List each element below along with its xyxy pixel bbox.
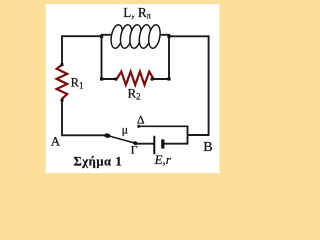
wire tie vertical (joins Delta wire, B wire, battery wire) <box>187 126 189 145</box>
node parallel top-left <box>100 35 103 38</box>
node R2 right <box>151 78 154 81</box>
node R2 left <box>114 78 117 81</box>
battery negative long plate <box>153 136 155 154</box>
switch blade tip arrowhead at Gamma <box>132 141 138 146</box>
parallel block left rail wire <box>101 36 103 79</box>
wire B horizontal (battery junction to B corner) <box>188 134 210 136</box>
wire left vertical lower (R1 to A corner) <box>61 100 63 136</box>
node parallel top-right <box>167 35 170 38</box>
svg-text:μ: μ <box>122 122 128 136</box>
node parallel bottom-right <box>167 77 170 80</box>
wire R2 left stub <box>101 78 118 80</box>
svg-text:Γ: Γ <box>131 143 138 157</box>
resistor R1 (red zigzag) <box>57 65 68 99</box>
wire Gamma contact to battery <box>137 143 154 145</box>
switch blade <box>109 136 135 143</box>
resistor R2 (red zigzag) <box>117 72 153 85</box>
svg-text:B: B <box>203 140 212 155</box>
wire top-left horizontal <box>61 35 101 37</box>
parallel block right rail wire <box>168 36 170 79</box>
node R1 bottom <box>61 99 64 102</box>
wire right vertical <box>208 35 210 135</box>
node parallel bottom-left <box>100 77 103 80</box>
svg-text:A: A <box>51 133 61 148</box>
node Delta contact <box>137 125 140 128</box>
wire R2 right stub <box>153 78 170 80</box>
svg-text:Σχήμα 1: Σχήμα 1 <box>74 155 123 169</box>
wire coil left stub <box>102 34 113 37</box>
wire Delta contact horizontal <box>139 125 189 127</box>
switch pivot arrow (end of wire from A) <box>104 133 111 138</box>
wire left vertical upper (top-left corner to R1) <box>61 36 63 65</box>
wire battery positive to tie <box>164 143 189 145</box>
wire top-right horizontal <box>169 35 209 37</box>
node R1 top <box>61 63 64 66</box>
wire coil right stub <box>160 35 169 36</box>
wire bottom (A corner to switch pivot) <box>61 134 105 136</box>
svg-text:Δ: Δ <box>137 112 145 126</box>
inductor L,Rpi (coil of 5 loops) <box>109 24 161 49</box>
battery positive short plate <box>161 139 164 148</box>
svg-text:E,r: E,r <box>154 152 172 167</box>
